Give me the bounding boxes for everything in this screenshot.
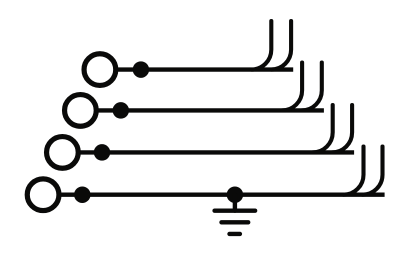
plug contact level 4 left [344,147,364,195]
junction node level 2 [113,102,130,119]
plug contact level 2 left [282,63,302,111]
junction node level 3 [94,144,111,161]
terminal circle level 1 [84,54,116,86]
wire level 1 [116,67,294,71]
terminal circle level 4 [27,179,59,211]
junction node level 1 [133,61,150,78]
plug contact level 3 left [313,105,333,152]
wire level 4 [59,192,385,196]
plug contact level 1 left [251,21,271,70]
terminal circle level 3 [47,137,79,169]
plug contact level 2 right [302,63,322,111]
wire level 3 [78,150,354,154]
wire level 2 [96,108,324,112]
terminal circle level 2 [65,95,97,127]
ground [215,195,256,234]
plug contact level 1 right [271,21,291,70]
ground junction node [227,186,244,203]
plug contact level 4 right [363,147,383,195]
junction node level 4 [74,186,91,203]
plug contact level 3 right [332,105,352,152]
